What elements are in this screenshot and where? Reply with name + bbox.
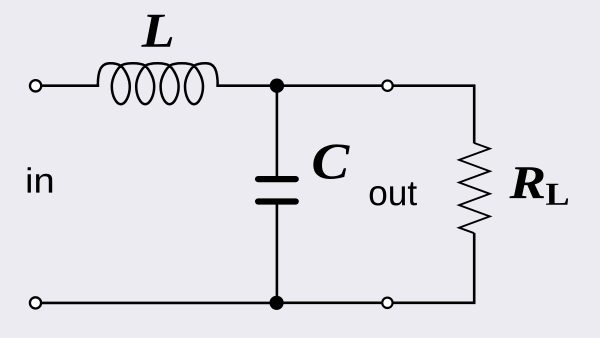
inductor L (coil) <box>98 63 218 104</box>
wire: resistor bottom to bottom-right corner to out- terminal <box>393 233 475 303</box>
capacitor C top plate <box>258 176 296 182</box>
wire: out+ terminal to top-right corner and down to resistor <box>393 86 475 144</box>
terminal out+ (open circle) <box>382 81 392 91</box>
terminal in- (open circle) <box>30 297 41 308</box>
terminal in+ (open circle) <box>30 80 41 91</box>
wire: node A to out+ terminal <box>277 84 382 87</box>
label R (load resistor) <box>509 167 544 198</box>
terminal out- (open circle) <box>382 298 392 308</box>
label out <box>370 182 417 205</box>
label C (capacitor value) <box>313 144 350 179</box>
resistor RL zigzag <box>459 143 490 233</box>
wire: node A down to capacitor top plate <box>276 86 279 177</box>
node A junction dot <box>270 79 284 93</box>
wire: inductor to node A <box>216 84 270 87</box>
wire: out- terminal to node B <box>277 301 382 304</box>
label L (inductor value) <box>141 15 172 47</box>
capacitor C bottom plate <box>258 198 296 204</box>
wire: capacitor bottom plate down to node B <box>276 204 279 303</box>
label L subscript of RL <box>546 184 568 205</box>
label in <box>28 167 53 192</box>
wire: node B to in- terminal <box>41 302 270 305</box>
wire: in+ terminal to inductor <box>41 84 99 87</box>
node B junction dot <box>270 296 284 310</box>
